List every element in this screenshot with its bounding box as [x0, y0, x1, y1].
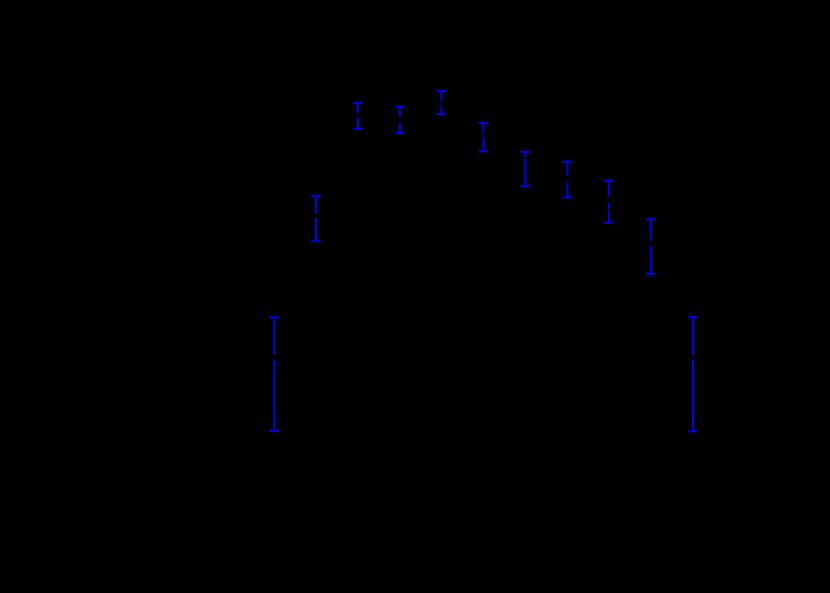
error bar 11: [688, 317, 698, 431]
error bar 7: [521, 152, 531, 187]
error bar 5: [437, 91, 447, 114]
error bar 10: [646, 219, 656, 274]
error bar 3: [353, 103, 363, 129]
error bar 2: [311, 196, 321, 241]
error bar 4: [395, 107, 405, 134]
error bar 6: [479, 123, 489, 152]
error bar 1: [270, 317, 280, 431]
error bar 9: [604, 181, 614, 223]
error bar 8: [563, 162, 573, 198]
